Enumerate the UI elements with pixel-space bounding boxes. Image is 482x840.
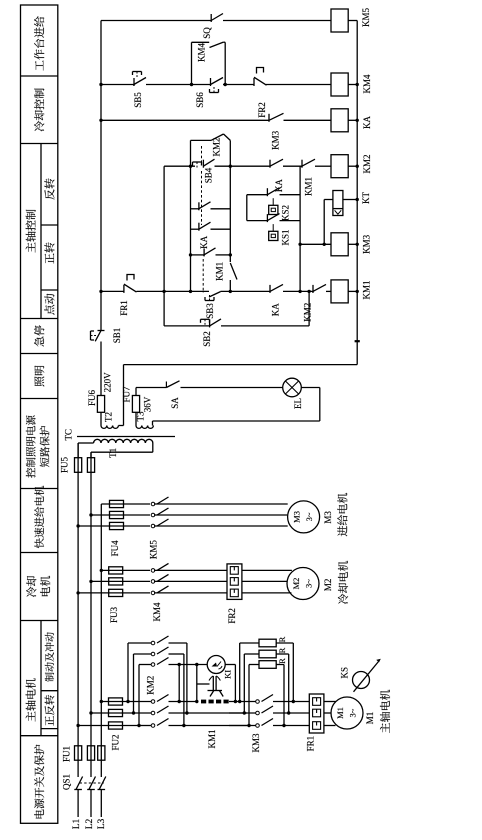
vertical feeder from FR1 junction bbox=[163, 166, 165, 326]
svg-text:T1: T1 bbox=[108, 448, 118, 458]
wire KS common bracket bbox=[246, 195, 248, 221]
svg-text:M3: M3 bbox=[323, 511, 333, 524]
svg-text:FR2: FR2 bbox=[227, 608, 237, 624]
wire L3 bus bbox=[100, 504, 102, 777]
svg-text:KM3: KM3 bbox=[251, 733, 261, 753]
label 快速进给电机 bbox=[21, 552, 58, 554]
contactor KM5 main contacts bbox=[150, 503, 154, 505]
svg-text:FU1: FU1 bbox=[61, 746, 71, 762]
thermal contact FR1 bbox=[123, 285, 125, 293]
rung wire KM2 circuit bbox=[164, 165, 195, 167]
wire M1 lines to KM1 bbox=[128, 701, 151, 703]
wire column A (spindle cluster) bbox=[190, 140, 192, 291]
thermal relay FR1 heater block bbox=[309, 694, 324, 733]
label 反转 bbox=[41, 224, 58, 226]
svg-text:KS: KS bbox=[340, 667, 350, 679]
label 控制照明电源短路保护 bbox=[21, 488, 58, 490]
contact SB3 linked NC (row w5) bbox=[191, 254, 205, 256]
coil KM2 bbox=[331, 155, 348, 178]
svg-text:KM5: KM5 bbox=[361, 8, 371, 28]
svg-text:KM4: KM4 bbox=[152, 602, 162, 622]
label 主轴控制 bbox=[40, 144, 42, 319]
wire SB3 link dashed bbox=[202, 259, 204, 293]
wire M1 phase lines from bus taps bbox=[101, 701, 128, 703]
relay KI current element on line1 (thick bars) bbox=[201, 700, 206, 704]
contactor KM2 main contacts bbox=[151, 641, 155, 645]
svg-text:KM1: KM1 bbox=[215, 262, 225, 281]
rung wire KM5 circuit bbox=[101, 20, 211, 22]
svg-text:M1: M1 bbox=[365, 712, 375, 725]
limit switch SQ bbox=[210, 14, 212, 22]
lamp EL bbox=[283, 378, 302, 397]
thermal contact FR2 bbox=[253, 78, 255, 86]
svg-text:FR1: FR1 bbox=[306, 736, 316, 752]
wire KM2 output crossover bbox=[169, 642, 187, 644]
svg-text:M2: M2 bbox=[323, 579, 333, 592]
svg-text:SB1: SB1 bbox=[112, 328, 122, 344]
coil KM1 bbox=[331, 280, 348, 303]
coil KM5 bbox=[331, 9, 348, 32]
resistor bank R (3x) with connections bbox=[240, 642, 259, 644]
svg-text:M3: M3 bbox=[292, 511, 302, 523]
wire column B (spindle cluster) bbox=[229, 140, 231, 262]
label 制动及冲动 bbox=[45, 673, 54, 682]
contact KM2 self-hold bbox=[191, 139, 212, 141]
coil KT (time relay) bbox=[333, 191, 343, 216]
svg-text:KM1: KM1 bbox=[207, 729, 217, 748]
svg-text:FU3: FU3 bbox=[109, 607, 119, 624]
svg-text:TC: TC bbox=[64, 429, 74, 441]
label 正反转 bbox=[41, 690, 58, 692]
label 冷却电机 bbox=[21, 620, 58, 622]
wire M2 phase lines bbox=[101, 569, 227, 571]
contact KM4 self-hold (bypass) bbox=[191, 42, 193, 84]
label 冷却控制 bbox=[21, 143, 58, 145]
svg-text:FR1: FR1 bbox=[119, 300, 129, 316]
svg-text:KS1: KS1 bbox=[281, 229, 291, 245]
svg-text:KM2: KM2 bbox=[302, 303, 312, 322]
svg-text:KM5: KM5 bbox=[148, 540, 158, 560]
label 照明 bbox=[21, 398, 58, 400]
svg-text:L2: L2 bbox=[85, 818, 95, 829]
speed relay contact KS2 bbox=[247, 194, 268, 196]
fuse FU6 bbox=[97, 396, 104, 413]
transformer TC core bbox=[77, 436, 175, 438]
wire SA to EL bbox=[181, 387, 283, 389]
svg-text:KI: KI bbox=[223, 670, 233, 679]
coil KM4 bbox=[331, 73, 348, 96]
wire KS output column bbox=[299, 166, 301, 291]
svg-text:FU2: FU2 bbox=[110, 734, 120, 750]
emergency stop SB1 bbox=[98, 330, 105, 332]
wire FR1 to M1 bbox=[324, 701, 336, 703]
motor M2 circle bbox=[287, 568, 319, 600]
contact KA NO (rung KM1) bbox=[269, 285, 271, 293]
transformer secondary T3 36V bbox=[136, 426, 142, 429]
svg-text:KM4: KM4 bbox=[196, 43, 206, 63]
label 正转 bbox=[41, 289, 58, 291]
contact KM2 interlock NC bbox=[312, 285, 314, 293]
wire KT branch bbox=[323, 200, 325, 245]
svg-text:L1: L1 bbox=[72, 818, 82, 829]
svg-text:KA: KA bbox=[270, 303, 280, 316]
transformer secondary T2 220V bbox=[101, 426, 107, 429]
coil KA bbox=[331, 109, 348, 132]
label 进给电机 (motor) bbox=[337, 526, 347, 536]
transformer TC primary T1 bbox=[77, 443, 79, 458]
wire M1 lines KM2-junction to KM3 bbox=[229, 701, 256, 703]
fuse FU5 (2x) bbox=[75, 458, 82, 473]
svg-text:KM4: KM4 bbox=[362, 74, 372, 94]
svg-text:R: R bbox=[277, 636, 287, 642]
svg-text:3~: 3~ bbox=[303, 579, 313, 588]
svg-text:FR2: FR2 bbox=[257, 102, 267, 118]
svg-text:SB3: SB3 bbox=[205, 303, 215, 319]
svg-text:3~: 3~ bbox=[347, 708, 357, 717]
wire KM2 reversing loop left risers bbox=[127, 643, 129, 702]
contactor KM1 main contacts bbox=[151, 700, 155, 704]
switch QS1 bbox=[74, 789, 82, 791]
svg-text:KT: KT bbox=[361, 192, 371, 204]
svg-text:T2: T2 bbox=[104, 412, 114, 422]
switch SA bbox=[165, 382, 167, 388]
svg-text:SB2: SB2 bbox=[202, 331, 212, 347]
fuse FU7 bbox=[132, 396, 139, 413]
label 急停 bbox=[21, 353, 58, 355]
label 冷却电机 (motor) bbox=[338, 594, 348, 604]
svg-text:KM2: KM2 bbox=[212, 137, 222, 156]
wire T3 left to FU7 bbox=[135, 412, 137, 425]
speed relay contact KS1 bbox=[247, 220, 268, 222]
svg-text:KM1: KM1 bbox=[304, 177, 314, 196]
wire KM2 input lines bbox=[128, 642, 151, 644]
wire SB-link dashed (SB4) bbox=[201, 146, 203, 162]
contact KA NO (rung KM2) bbox=[269, 160, 271, 168]
contactor KM4 main contacts bbox=[150, 569, 154, 571]
svg-text:R: R bbox=[277, 658, 287, 664]
wire 0-return to T2 bbox=[124, 364, 358, 366]
svg-text:FU5: FU5 bbox=[60, 457, 70, 474]
label 电源开关及保护 bbox=[21, 735, 58, 737]
contact KM1 self-hold (in column B) bbox=[230, 263, 237, 280]
svg-text:M2: M2 bbox=[291, 578, 301, 590]
rung wire KM4 circuit bbox=[101, 84, 134, 86]
contactor KM3 braking contacts bbox=[256, 700, 260, 704]
motor M1 circle bbox=[331, 697, 363, 729]
coil KM3 bbox=[331, 233, 348, 256]
relay KI armature symbol bbox=[197, 683, 210, 685]
fuse FU4 (3x) bbox=[110, 500, 124, 507]
speed relay KS bbox=[353, 672, 370, 689]
svg-text:SB5: SB5 bbox=[133, 92, 143, 108]
contact KM3 aux NO bbox=[268, 114, 270, 122]
wire FU7 to SA bbox=[135, 388, 137, 396]
label 工作台进给 bbox=[21, 75, 58, 77]
wire FR2 to M2 bbox=[242, 569, 292, 571]
rung wire KM3 circuit bbox=[300, 243, 331, 245]
label 主轴电机 bbox=[40, 621, 42, 736]
wire L1 bus bbox=[77, 443, 79, 777]
wire control rail N (0) bbox=[356, 21, 358, 365]
svg-text:SA: SA bbox=[170, 397, 180, 409]
fuse FU3 (3x) bbox=[109, 567, 123, 574]
svg-text:FU4: FU4 bbox=[110, 540, 120, 557]
node junction nub on rail N bbox=[355, 340, 360, 342]
svg-text:KM1: KM1 bbox=[362, 280, 372, 299]
start button SB4 bbox=[193, 161, 202, 163]
svg-text:3~: 3~ bbox=[304, 512, 314, 521]
svg-text:KA: KA bbox=[199, 235, 209, 248]
svg-text:FU6: FU6 bbox=[87, 390, 97, 407]
contact KA NO (row lower) bbox=[191, 228, 199, 230]
svg-text:L3: L3 bbox=[97, 818, 107, 829]
rung wire KA circuit bbox=[101, 119, 269, 121]
svg-text:KM3: KM3 bbox=[270, 130, 280, 150]
wire T2 left to FU6 bbox=[100, 412, 102, 425]
svg-text:220V: 220V bbox=[103, 372, 113, 393]
contact SB linked NC (row mid) bbox=[191, 208, 199, 210]
svg-text:R: R bbox=[277, 647, 287, 653]
relay KI rotor circle bbox=[196, 665, 198, 702]
svg-text:KM2: KM2 bbox=[362, 154, 372, 173]
svg-text:QS1: QS1 bbox=[62, 774, 72, 790]
svg-text:36V: 36V bbox=[143, 396, 153, 412]
svg-text:KM2: KM2 bbox=[146, 676, 156, 695]
label 点动 bbox=[21, 318, 58, 320]
header label column frame bbox=[21, 5, 58, 823]
svg-text:KM3: KM3 bbox=[362, 234, 372, 254]
contact KM1 interlock NC bbox=[301, 160, 303, 168]
start button SB3 bbox=[209, 292, 221, 297]
label 主轴电机 (motor) bbox=[380, 723, 390, 733]
svg-text:SB6: SB6 bbox=[195, 92, 205, 108]
rung wire KM1 circuit bbox=[101, 290, 124, 292]
svg-text:M1: M1 bbox=[335, 707, 345, 719]
start button SB6 bbox=[210, 78, 212, 86]
svg-text:SQ: SQ bbox=[202, 27, 212, 39]
svg-text:EL: EL bbox=[293, 398, 303, 409]
motor M3 circle bbox=[288, 501, 320, 533]
svg-text:SB4: SB4 bbox=[203, 167, 213, 183]
svg-text:KA: KA bbox=[362, 116, 372, 129]
thermal relay FR2 heater block bbox=[227, 564, 242, 600]
svg-text:KS2: KS2 bbox=[281, 205, 291, 221]
jog button SB2 branch bbox=[164, 325, 210, 327]
wire L2 bus bbox=[90, 452, 92, 777]
wire M3 phase lines bbox=[101, 503, 292, 505]
stop button SB5 bbox=[133, 78, 135, 86]
fuse FU2 (3x) bbox=[109, 698, 123, 705]
wire control rail L (220V) bbox=[100, 21, 102, 331]
wire EL return to T3 bbox=[301, 387, 320, 389]
fuse FU1 (3x) bbox=[75, 746, 82, 760]
